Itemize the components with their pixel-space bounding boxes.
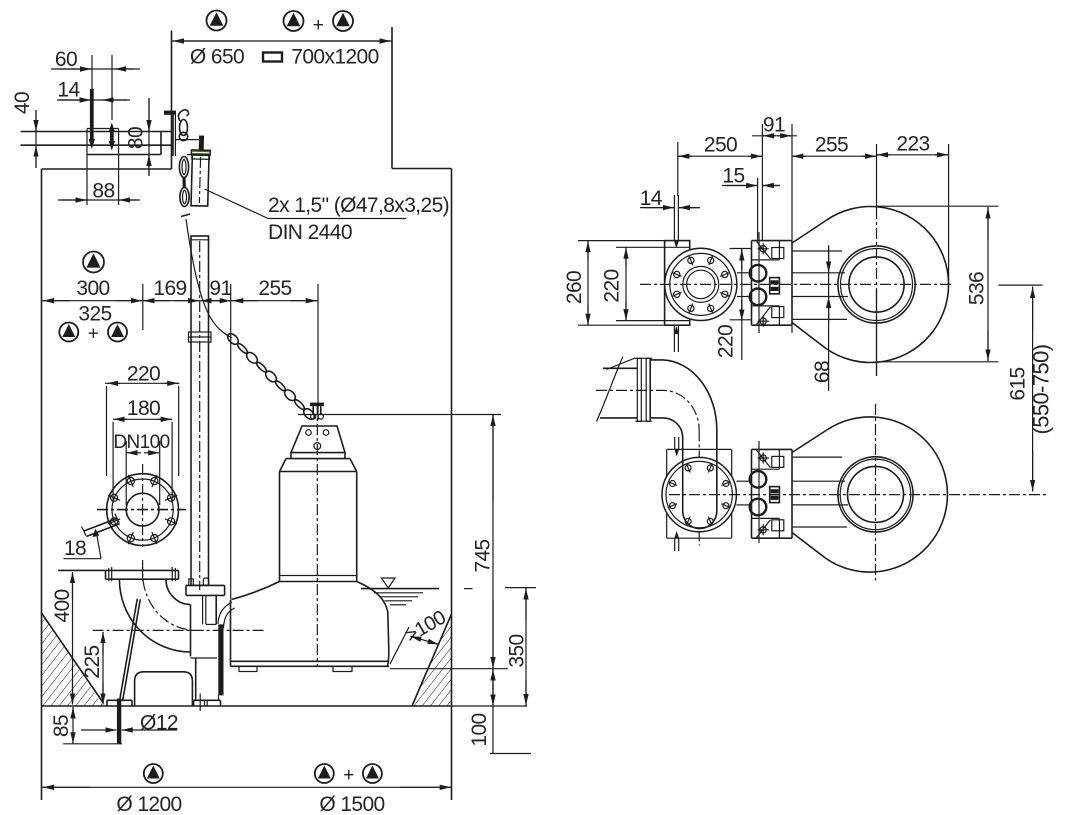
svg-text:15: 15 bbox=[722, 165, 744, 188]
svg-text:745: 745 bbox=[472, 539, 495, 572]
svg-text:Ø 1500: Ø 1500 bbox=[319, 793, 384, 815]
svg-text:180: 180 bbox=[127, 397, 160, 420]
svg-text:260: 260 bbox=[563, 271, 586, 304]
svg-text:Ø12: Ø12 bbox=[140, 712, 178, 735]
svg-text:14: 14 bbox=[640, 187, 663, 210]
svg-text:700x1200: 700x1200 bbox=[291, 46, 378, 69]
svg-text:60: 60 bbox=[55, 48, 77, 71]
svg-text:DN100: DN100 bbox=[113, 432, 169, 453]
svg-text:DIN 2440: DIN 2440 bbox=[268, 221, 352, 244]
svg-text:300: 300 bbox=[76, 277, 109, 300]
svg-text:Ø 650: Ø 650 bbox=[190, 46, 244, 69]
svg-text:100: 100 bbox=[468, 713, 491, 746]
svg-text:91: 91 bbox=[763, 114, 785, 137]
svg-text:615: 615 bbox=[1007, 367, 1030, 400]
svg-text:250: 250 bbox=[704, 134, 737, 157]
svg-text:2x 1,5" (Ø47,8x3,25): 2x 1,5" (Ø47,8x3,25) bbox=[268, 194, 449, 217]
svg-text:223: 223 bbox=[896, 133, 929, 156]
svg-text:Ø 1200: Ø 1200 bbox=[116, 793, 181, 815]
svg-text:536: 536 bbox=[966, 272, 989, 305]
svg-text:+: + bbox=[88, 324, 99, 345]
svg-text:91: 91 bbox=[209, 277, 231, 300]
svg-text:225: 225 bbox=[81, 645, 104, 678]
svg-text:220: 220 bbox=[127, 362, 160, 385]
svg-text:18: 18 bbox=[64, 537, 86, 560]
svg-text:40: 40 bbox=[11, 92, 34, 114]
svg-text:88: 88 bbox=[92, 180, 114, 203]
svg-text:+: + bbox=[343, 765, 354, 786]
svg-text:255: 255 bbox=[815, 134, 848, 157]
svg-text:85: 85 bbox=[50, 715, 73, 737]
svg-text:255: 255 bbox=[258, 277, 291, 300]
svg-text:325: 325 bbox=[78, 302, 111, 325]
svg-text:80: 80 bbox=[125, 127, 148, 149]
svg-text:220: 220 bbox=[601, 269, 624, 302]
svg-text:68: 68 bbox=[811, 361, 834, 383]
svg-text:350: 350 bbox=[506, 634, 529, 667]
svg-text:14: 14 bbox=[57, 79, 80, 102]
svg-text:169: 169 bbox=[153, 277, 186, 300]
svg-text:+: + bbox=[313, 15, 324, 36]
svg-text:220: 220 bbox=[715, 325, 738, 358]
svg-text:(550-750): (550-750) bbox=[1029, 345, 1054, 435]
svg-text:400: 400 bbox=[51, 589, 74, 622]
